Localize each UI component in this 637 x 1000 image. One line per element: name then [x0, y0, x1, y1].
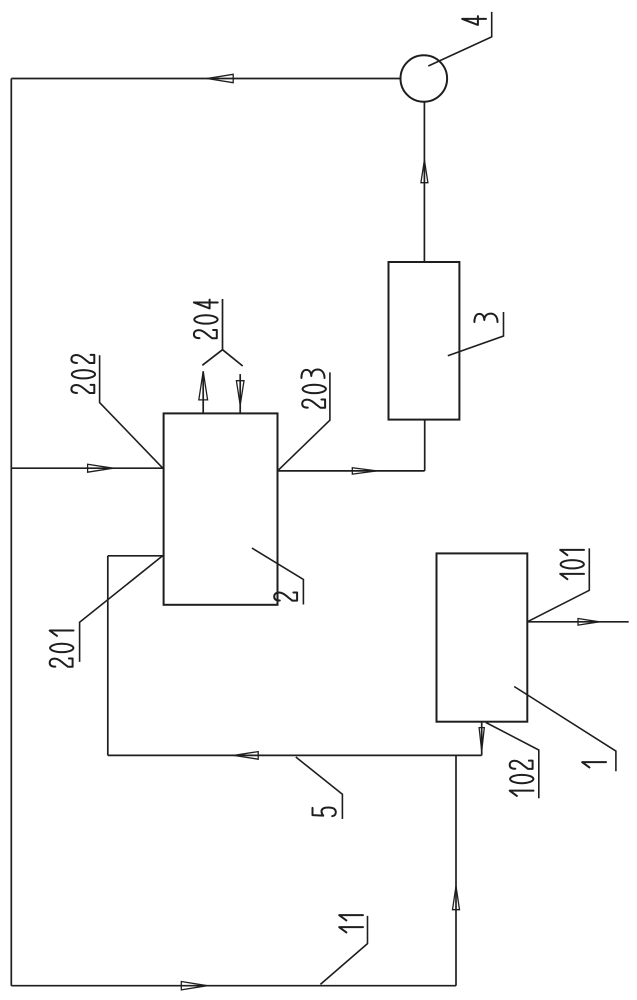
pump circle 4 — [401, 55, 448, 102]
label 3 — [474, 314, 497, 322]
leader label 101 — [527, 548, 589, 621]
leader label 11 — [320, 916, 367, 985]
wire line 11 vertical riser — [455, 755, 457, 985]
wire Y junction right arm of vent 204 — [223, 350, 243, 366]
wire line 5 vertical up — [107, 556, 109, 756]
vessel box 1 — [437, 553, 528, 721]
leader label 202 — [100, 355, 163, 468]
label 102 — [510, 761, 534, 796]
arrow down on vent right branch — [236, 381, 244, 406]
arrow right on wire 203 — [352, 468, 377, 474]
arrow up on wire box 3 to pump — [421, 160, 428, 183]
leader label 4 — [428, 12, 491, 66]
label 201 — [50, 631, 74, 667]
arrow right on bottom feed line — [181, 982, 207, 990]
wire left vertical main — [10, 79, 12, 986]
wire bottom feed line 11 horizontal — [11, 985, 456, 987]
wire connector box 1 bottom to line 5 — [481, 722, 483, 756]
arrow up on line 11 riser — [453, 886, 460, 910]
vessel box 3 — [389, 262, 460, 420]
arrow right on inlet 202 — [88, 464, 113, 472]
leader label 102 — [486, 723, 539, 799]
wire line 5 stub into box 2 — [108, 555, 164, 557]
leader label 201 — [80, 555, 164, 662]
wire Y junction left arm of vent 204 — [202, 350, 222, 366]
label 2 — [274, 592, 297, 600]
arrow left on line 5 — [234, 752, 259, 760]
leader label 1 — [514, 687, 616, 772]
wire inlet 202 into box 2 left — [11, 467, 163, 469]
label 1 — [582, 762, 606, 767]
wire box 3 top to pump 4 — [423, 102, 425, 262]
leader label 203 — [278, 372, 330, 471]
leader label 2 — [252, 548, 304, 605]
label 5 — [313, 807, 336, 816]
label 4 — [462, 16, 486, 25]
label 204 — [194, 300, 218, 339]
leader label 3 — [448, 312, 504, 356]
arrow right on outlet 101 — [578, 619, 599, 626]
wire top return line from pump 4 — [11, 78, 400, 80]
arrow left on top return line — [207, 74, 233, 82]
wire vent 204 left branch from box 2 top — [202, 371, 204, 413]
vessel box 2 — [164, 413, 278, 604]
label 202 — [71, 355, 95, 393]
leader label 5 — [296, 757, 343, 819]
label 11 — [339, 915, 363, 932]
wire vent 204 vertical with label line — [222, 299, 224, 350]
wire line 5 horizontal — [108, 754, 482, 756]
wire vent 204 right branch from box 2 top — [239, 374, 241, 413]
wire 203 from box 2 right to box 3 — [278, 470, 425, 472]
label 203 — [301, 370, 326, 408]
wire outlet 101 from box 1 right — [527, 621, 628, 623]
wire riser into box 3 bottom — [424, 420, 426, 471]
arrow down into line 5 below box 1 — [479, 728, 484, 751]
label 101 — [560, 550, 584, 579]
arrow up on vent left branch — [199, 371, 208, 400]
